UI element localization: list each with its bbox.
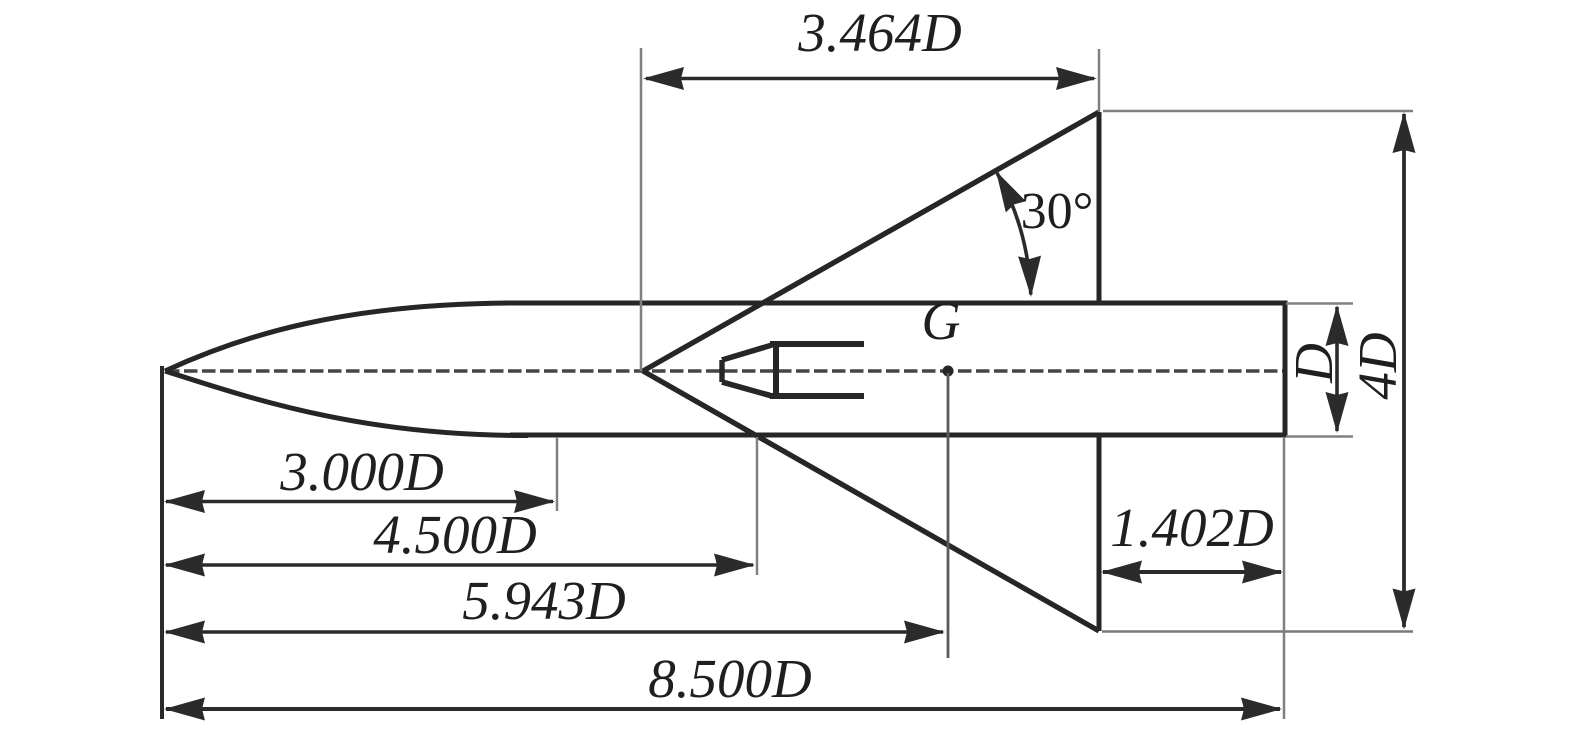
dimension 3.464D line (646, 77, 1094, 81)
svg-text:4.500D: 4.500D (373, 504, 536, 565)
body bottom line (510, 433, 1285, 438)
dimension 4D extension bottom (1102, 630, 1413, 633)
dimension 3.464D right arrow (1056, 67, 1097, 90)
angle 30 upper arrow (986, 165, 1026, 212)
wing section wedge upper slant (722, 345, 772, 360)
nose ogive lower curve (165, 371, 528, 436)
dimension 4.500D line (166, 563, 753, 567)
dimension D line (1335, 307, 1339, 431)
dimension 3.000D left arrow (164, 490, 205, 513)
wing section wedge tip (719, 360, 724, 382)
svg-text:30°: 30° (1021, 183, 1094, 240)
dimension 4.500D right arrow (714, 554, 755, 577)
dimension 8.500D right arrow (1241, 698, 1282, 721)
left datum line (160, 366, 164, 719)
upper fin leading edge (643, 112, 1099, 371)
wing section top bar (770, 341, 864, 347)
G extension line (947, 373, 950, 658)
dimension 4D line (1402, 114, 1406, 627)
dimension 3.464D extension left (640, 48, 643, 371)
dimension 1.402D line (1103, 570, 1281, 574)
dimension D extension top (1286, 302, 1353, 305)
dimension 8.500D line (166, 707, 1280, 711)
dimension 5.943D right arrow (904, 621, 945, 644)
dimension 4D bottom arrow (1393, 589, 1416, 630)
dimension 8.500D left arrow (164, 698, 205, 721)
body top line (505, 301, 1285, 306)
dimension 5.943D left arrow (164, 621, 205, 644)
G center-of-gravity dot (943, 366, 954, 377)
dimension 3.464D extension right (1098, 49, 1101, 112)
dimension 4D extension top (1103, 110, 1413, 113)
angle 30 lower arrow (1018, 256, 1042, 298)
upper fin trailing edge (1097, 112, 1102, 303)
dimension 5.943D line (166, 630, 943, 634)
svg-text:G: G (922, 291, 961, 351)
nose ogive upper curve (165, 303, 520, 371)
stern base line (1283, 301, 1288, 438)
dimension 1.402D right arrow (1242, 561, 1283, 584)
dimension 8.500D extension (stern) (1283, 437, 1286, 719)
svg-text:4D: 4D (1347, 332, 1408, 399)
svg-text:D: D (1283, 343, 1344, 384)
dimension D bottom arrow (1326, 392, 1349, 433)
dimension 1.402D left arrow (1101, 561, 1142, 584)
dimension 3.464D left arrow (643, 67, 684, 90)
wing section wedge lower slant (722, 382, 772, 396)
wing section bottom bar (770, 393, 864, 399)
centerline (dashed axis) (166, 369, 1286, 373)
dimension 4.500D left arrow (164, 554, 205, 577)
svg-text:8.500D: 8.500D (648, 648, 811, 709)
dimension 3.000D extension (556, 437, 559, 511)
svg-text:3.464D: 3.464D (797, 2, 961, 63)
wing section vertical bar (773, 341, 779, 399)
dimension D top arrow (1326, 305, 1349, 346)
lower fin leading edge (643, 371, 1099, 631)
dimension 3.000D right arrow (514, 490, 555, 513)
dimension 4D top arrow (1393, 112, 1416, 153)
svg-text:1.402D: 1.402D (1110, 497, 1273, 558)
svg-text:3.000D: 3.000D (279, 441, 443, 502)
dimension 4.500D extension (756, 437, 759, 575)
dimension 3.000D line (166, 500, 553, 504)
angle 30 arc (997, 173, 1031, 295)
dimension D extension bottom (1286, 435, 1353, 438)
svg-text:5.943D: 5.943D (462, 570, 625, 631)
lower fin trailing edge (1097, 435, 1102, 631)
